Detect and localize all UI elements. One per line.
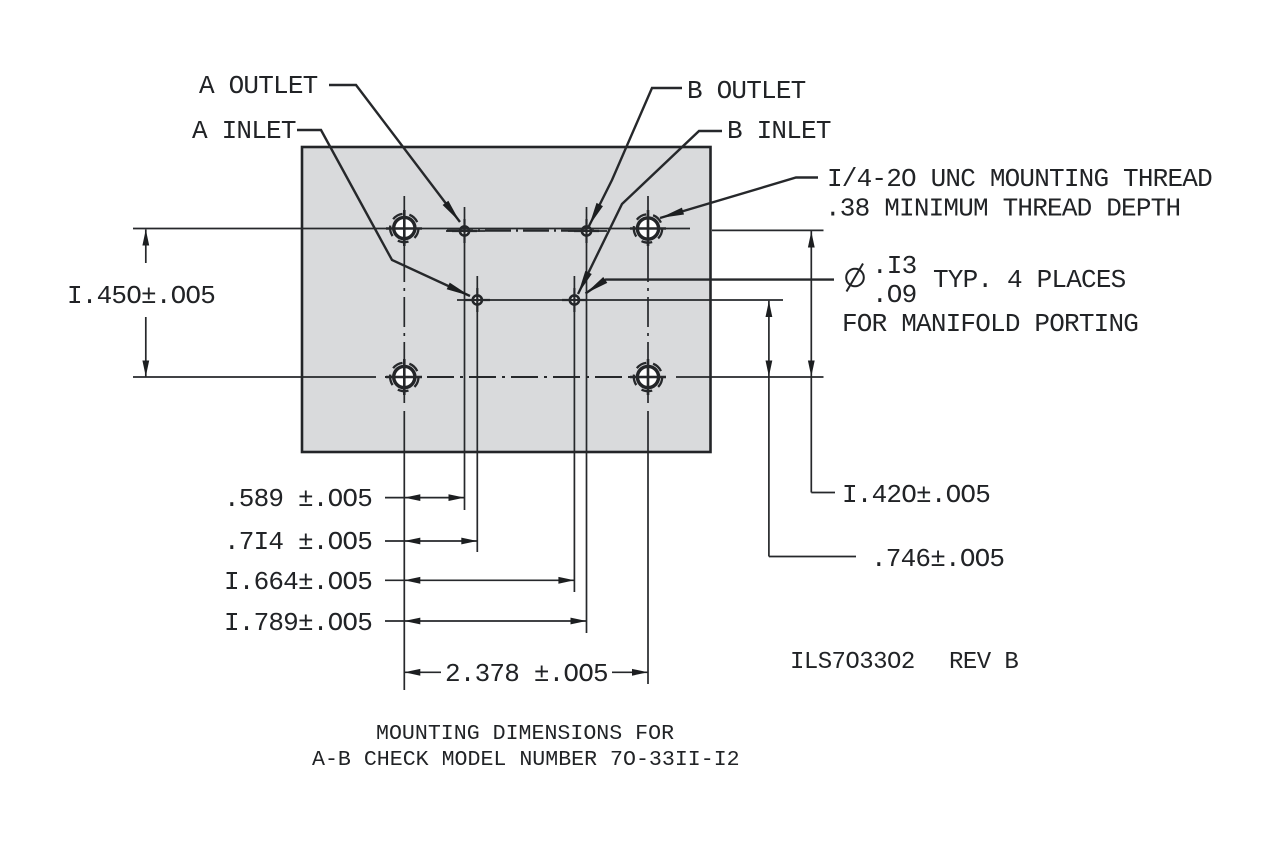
- leader B INLET: [578, 131, 722, 294]
- bottom row centerline dash-dot: [385, 376, 668, 378]
- svg-text:A INLET: A INLET: [192, 116, 296, 146]
- A inlet hole: [473, 295, 482, 304]
- B inlet hole: [570, 295, 579, 304]
- crosshair mounting hole bottom-left: [386, 359, 422, 395]
- crosshair mounting hole top-left: [386, 210, 422, 246]
- crosshair A outlet: [452, 219, 477, 243]
- svg-text:I.42O±.OO5: I.42O±.OO5: [842, 480, 990, 510]
- mounting hole top-left: [390, 214, 418, 242]
- bottom row centerline left solid: [133, 376, 376, 378]
- svg-text:REV B: REV B: [949, 649, 1018, 676]
- svg-text:FOR MANIFOLD PORTING: FOR MANIFOLD PORTING: [842, 309, 1138, 339]
- svg-text:TYP. 4 PLACES: TYP. 4 PLACES: [933, 265, 1126, 295]
- dimension 1.450 left: [67, 230, 215, 377]
- dimension 2.378: [404, 659, 648, 689]
- A inlet extension vertical: [476, 276, 478, 552]
- crosshair A inlet: [465, 288, 490, 312]
- top row centerline dash-dot: [447, 230, 594, 232]
- svg-text:.589 ±.OO5: .589 ±.OO5: [224, 484, 372, 514]
- mounting hole bottom-right: [634, 363, 662, 391]
- leader A INLET: [297, 130, 470, 296]
- svg-text:A OUTLET: A OUTLET: [199, 71, 318, 101]
- svg-text:MOUNTING DIMENSIONS FOR: MOUNTING DIMENSIONS FOR: [376, 722, 674, 746]
- vertical centerline left column: [403, 196, 405, 252]
- B outlet crosshair horizontal: [568, 230, 607, 232]
- A outlet hole: [460, 226, 469, 235]
- svg-text:B OUTLET: B OUTLET: [687, 76, 806, 106]
- svg-text:.I3: .I3: [872, 251, 916, 281]
- bottom row centerline right solid: [676, 376, 824, 378]
- leader 1/4-20: [660, 178, 818, 219]
- vertical centerline right column: [647, 196, 649, 252]
- dimension .714: [224, 527, 477, 557]
- dimension 1.664: [224, 567, 574, 597]
- svg-text:.746±.OO5: .746±.OO5: [871, 544, 1004, 574]
- svg-text:B INLET: B INLET: [727, 116, 831, 146]
- svg-text:.7I4 ±.OO5: .7I4 ±.OO5: [224, 527, 372, 557]
- top row centerline solid: [133, 228, 690, 230]
- dimension .589: [224, 484, 465, 514]
- crosshair mounting hole top-right: [630, 210, 666, 246]
- leader B OUTLET: [589, 88, 682, 226]
- svg-text:I.664±.OO5: I.664±.OO5: [224, 567, 372, 597]
- svg-text:2.378 ±.OO5: 2.378 ±.OO5: [445, 659, 608, 689]
- dimension 1.789: [224, 608, 587, 638]
- mounting hole bottom-left: [390, 363, 418, 391]
- dimension .746 right: [766, 301, 1005, 574]
- svg-text:I/4-2O UNC MOUNTING THREAD: I/4-2O UNC MOUNTING THREAD: [827, 164, 1212, 194]
- svg-text:.O9: .O9: [872, 280, 916, 310]
- svg-text:.38 MINIMUM THREAD DEPTH: .38 MINIMUM THREAD DEPTH: [825, 194, 1180, 224]
- crosshair B inlet: [562, 288, 587, 312]
- svg-text:I.789±.OO5: I.789±.OO5: [224, 608, 372, 638]
- crosshair B outlet: [574, 219, 599, 243]
- leader diameter note: [586, 280, 835, 294]
- crosshair mounting hole bottom-right: [630, 359, 666, 395]
- svg-text:A-B CHECK MODEL NUMBER 7O-33II: A-B CHECK MODEL NUMBER 7O-33II-I2: [312, 748, 740, 772]
- mounting hole top-right: [634, 214, 662, 242]
- svg-text:ILS7O33O2: ILS7O33O2: [790, 649, 915, 676]
- inlet row line: [457, 299, 783, 301]
- A outlet crosshair horizontal: [446, 230, 485, 232]
- svg-text:I.45O±.OO5: I.45O±.OO5: [67, 281, 215, 311]
- leader A OUTLET: [329, 85, 460, 222]
- diameter note: [842, 251, 1138, 339]
- B outlet extension vertical: [586, 207, 588, 633]
- B inlet extension vertical: [573, 276, 575, 592]
- phi symbol: [846, 269, 864, 287]
- top row centerline right extension: [712, 229, 824, 231]
- dimension 1.420 right: [808, 231, 990, 510]
- B outlet hole: [582, 226, 591, 235]
- A outlet extension vertical: [464, 207, 466, 510]
- plate body: [302, 147, 711, 452]
